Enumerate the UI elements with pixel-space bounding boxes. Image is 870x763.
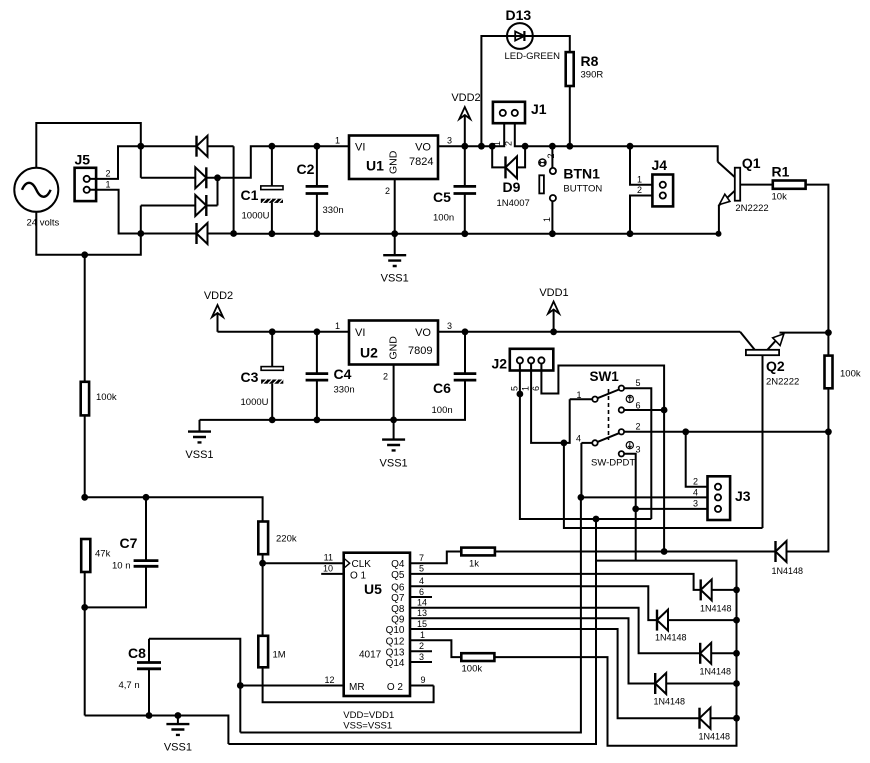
node C3 top [269,328,276,335]
label J2 pin5 [510,386,520,391]
svg-text:1: 1 [105,180,110,190]
label C6 [433,380,451,396]
node diode B bus [733,587,740,594]
label pin13 [417,608,427,618]
switch SW1 throw2 [619,429,829,434]
wire VSS column [228,519,596,744]
svg-text:1000U: 1000U [242,211,270,222]
svg-text:VDD2: VDD2 [451,92,480,104]
svg-text:14: 14 [417,598,427,608]
wire ac bottom [36,212,141,255]
label U5 [364,581,382,597]
node D9 right [522,143,529,150]
label U5 Q13 [386,647,405,658]
label C2 value [323,205,344,216]
label 1M [273,650,286,661]
diode D9 [492,146,525,178]
wire J4 pin2 [630,196,652,234]
wire J3 pin4 [581,496,708,498]
node C4 bottom [314,417,321,424]
node J4 top [627,143,634,150]
switch SW1 pole4 [581,433,619,497]
capacitor C1 [261,146,283,234]
wire J5 pin2 [90,146,141,179]
wire Q14 stub [410,661,432,663]
label J5 [75,152,91,168]
capacitor C3 [261,332,283,420]
label J2 pin1 [521,386,531,391]
svg-text:10 n: 10 n [112,561,131,572]
label 1N4148 D [700,667,732,677]
node C7 bottom [81,604,88,611]
svg-text:2: 2 [385,186,390,196]
node J3 pin2 top [682,428,689,435]
wire Q5 [410,574,701,590]
node C8 bottom [146,712,153,719]
svg-text:GND: GND [388,150,400,174]
svg-text:O 2: O 2 [387,682,404,693]
wire D13 right to R8 [533,36,570,52]
svg-text:VO: VO [415,142,431,154]
svg-text:6: 6 [531,386,541,391]
wire J5 pin1 [90,190,141,234]
node J2 pin5 branch [593,516,600,523]
svg-text:Q6: Q6 [391,582,405,593]
svg-text:LED-GREEN: LED-GREEN [505,51,561,62]
svg-text:2: 2 [637,185,642,195]
label U2 [360,345,378,361]
node ac-bottom tap [81,251,88,258]
label VDD1 [539,287,568,299]
node D13 left [478,143,485,150]
node J3 pin3 junction [632,506,639,513]
svg-text:4,7 n: 4,7 n [119,680,140,691]
svg-text:6: 6 [419,587,424,597]
wire U2 bottom rail [200,380,466,420]
node J3 pin4 junction [578,494,585,501]
svg-text:1N4148: 1N4148 [654,697,686,707]
label 1N4148 F [699,732,731,742]
node SW1 throw6 junction [661,407,668,414]
node bridge bottom-left [137,230,144,237]
label U5 O2 [387,682,404,693]
label R1 value [772,192,788,203]
label D9 value [497,198,530,209]
capacitor C2 [306,146,329,234]
label U5 Q8 [391,604,405,615]
node C5 top [461,143,468,150]
label pin6 [419,587,424,597]
resistor R2 100k left [81,255,89,497]
label U1 VI [355,142,365,154]
wire ac top [36,123,141,168]
resistor R6 1k [461,548,495,556]
wire bridge left lower column [140,206,142,234]
wire pole1 branch column [564,443,763,528]
label U5 MR [349,682,365,693]
label U5 4017 [359,650,382,661]
svg-text:O 1: O 1 [350,571,367,582]
label J5 pin1 [105,180,110,190]
svg-text:100n: 100n [432,405,453,416]
wire C8 top [149,639,240,686]
capacitor C8 [137,639,161,716]
label D13 LED-GREEN [505,51,561,62]
label C8 [128,645,146,661]
svg-text:Q4: Q4 [391,559,405,570]
svg-text:Q9: Q9 [391,614,405,625]
svg-text:10: 10 [323,564,333,574]
label C7 value [112,561,131,572]
svg-text:VDD2: VDD2 [204,290,233,302]
wire J2 pin1 [531,364,570,443]
svg-text:1N4148: 1N4148 [699,732,731,742]
node C2 bottom [314,230,321,237]
resistor R3 47k [81,539,90,716]
ac source V1 24 volts [14,168,58,212]
svg-text:4: 4 [693,487,698,497]
svg-text:2: 2 [419,641,424,651]
label 100k left [96,392,117,403]
label SW1 pin4 [576,434,581,444]
label D13 [506,7,532,23]
wire D13 left [481,36,507,146]
svg-text:J5: J5 [75,152,91,168]
wire bridge left column [140,146,142,178]
label SW-DPDT [591,458,635,469]
wire bridge right column [233,146,235,233]
svg-text:Q7: Q7 [391,593,405,604]
label SW1 pin5 [636,378,641,388]
label J2 pin6 [531,386,541,391]
label BTN1 [563,166,600,182]
note VDD=VDD1 [343,710,394,721]
svg-text:2N2222: 2N2222 [766,377,799,388]
wire 1k rail [495,551,776,553]
label U1 GND [388,150,400,174]
svg-text:24 volts: 24 volts [27,218,60,229]
svg-text:7824: 7824 [409,156,433,168]
svg-text:VSS1: VSS1 [381,273,409,285]
svg-text:2: 2 [546,153,556,158]
wire MR column [240,497,581,732]
capacitor C5 [454,146,477,234]
svg-text:Q1: Q1 [742,155,761,171]
svg-text:Q14: Q14 [386,658,405,669]
label U1 VO [415,142,431,154]
node BTN1 top [549,143,556,150]
node D2-D3 junction [214,174,221,181]
symbol down-arrow [626,442,633,449]
node throw2 column junction [825,428,832,435]
svg-text:15: 15 [417,619,427,629]
wire U2 vo rail [438,331,740,333]
label C5 [433,189,451,205]
wire CLK row [263,562,344,564]
label 100k right [840,369,861,380]
label U5 O1 [350,571,367,582]
svg-text:1: 1 [521,386,531,391]
node R8 bottom [566,143,573,150]
wire vin rail [272,145,349,147]
label pin10 [323,564,333,574]
label pin3 [419,652,424,662]
node BTN1 bottom [549,230,556,237]
label J4 [652,157,668,173]
label R8 value [581,70,604,81]
wire J3 pin2 [686,432,708,487]
svg-text:5: 5 [419,564,424,574]
node C1 top [269,143,276,150]
svg-text:1k: 1k [469,559,479,570]
wire D3 cathode up [217,178,219,206]
svg-text:D9: D9 [503,179,521,195]
svg-text:1N4148: 1N4148 [700,604,732,614]
svg-text:VI: VI [355,327,365,339]
svg-text:220k: 220k [276,534,297,545]
label BTN1 BUTTON [563,184,602,195]
wire U1 vo [438,145,492,147]
svg-text:11: 11 [324,553,333,563]
wire Q6 [410,586,657,620]
label J2 [492,356,508,372]
svg-text:C6: C6 [433,380,451,396]
diode D15 1N4148 B [701,579,737,600]
label 1N4148 C [655,633,687,643]
svg-text:D13: D13 [506,7,532,23]
transistor Q2 2N2222 [740,332,828,528]
label J3 pin4 [693,487,698,497]
svg-text:C1: C1 [241,187,259,203]
label C2 [297,161,315,177]
svg-text:R8: R8 [581,53,599,69]
label Q1 [742,155,761,171]
node diode C bus [733,617,740,624]
node C2 top [314,143,321,150]
wire Q10 [410,629,700,718]
svg-text:1000U: 1000U [241,397,269,408]
label Q2 2N2222 [766,377,799,388]
svg-text:390R: 390R [581,70,604,81]
label C7 [120,535,138,551]
svg-text:1: 1 [335,321,340,331]
label pin12 [324,675,334,685]
wire bottom-left VSS rail [85,716,229,745]
diode D1 [141,136,234,157]
label pin7 [419,553,424,563]
capacitor C6 [454,332,477,380]
wire bus top feed [494,561,736,746]
wire J3 pin3 column [635,509,637,561]
svg-text:BUTTON: BUTTON [563,184,602,195]
svg-text:VDD1: VDD1 [539,287,568,299]
label C4 value [334,385,355,396]
diode D14 1N4148 A [776,541,788,562]
wire 100k right down [827,388,829,432]
svg-text:5: 5 [636,378,641,388]
label U1 pin1 [335,136,340,146]
svg-text:3: 3 [693,499,698,509]
node gnd bottom [175,712,182,719]
svg-text:3: 3 [447,136,452,146]
svg-text:1N4148: 1N4148 [655,633,687,643]
wire Q4 [410,552,461,564]
label VDD2 top [451,92,480,104]
svg-text:C3: C3 [241,369,259,385]
node diode F bus [733,715,740,722]
ic U5 4017 [344,553,410,696]
label C6 value [432,405,453,416]
label C8 value [119,680,140,691]
node U2 gnd bottom [390,417,397,424]
svg-text:1N4148: 1N4148 [700,667,732,677]
svg-text:3: 3 [636,445,641,455]
rail to J1 pin1 [492,123,504,146]
label U5 Q9 [391,614,405,625]
node bridge top-left [137,143,144,150]
wire MR row [240,685,343,687]
node diode E bus [733,680,740,687]
svg-text:7809: 7809 [408,345,432,357]
label J3 pin3 [693,499,698,509]
wire right column to diode rail [787,432,828,552]
svg-text:J2: J2 [492,356,508,372]
label U2 VI [355,327,365,339]
node J2 pin5 dot [517,391,524,398]
label 47k [95,549,111,560]
label pin1 [420,630,425,640]
label C1 value [242,211,270,222]
label J3 pin2 [693,477,698,487]
wire rail J4 to Q1 [630,146,718,162]
resistor R4 220k [258,522,268,564]
svg-text:1: 1 [335,136,340,146]
label VSS1 under U1 [381,273,409,285]
resistor R1 [773,181,806,189]
svg-text:VSS1: VSS1 [380,458,408,470]
node Q2 emitter junction [825,329,832,336]
wire U1 gnd [394,179,396,234]
switch SW1 throw3 [619,451,636,509]
svg-text:BTN1: BTN1 [563,166,600,182]
node J2 pin1 branch [561,440,568,447]
diode D2 [141,146,272,188]
label D9 [503,179,521,195]
wire J3 pin3 [636,508,708,510]
node J2 pin6 bottom [661,548,668,555]
wire MR junction down [239,686,241,733]
svg-text:J1: J1 [531,101,547,117]
svg-text:2: 2 [383,372,388,382]
wire J2 pin5 [520,364,651,520]
label U5 Q6 [391,582,405,593]
svg-text:1: 1 [637,175,642,185]
svg-text:4017: 4017 [359,650,382,661]
wire Q7 stub [410,596,432,598]
svg-text:VDD=VDD1: VDD=VDD1 [343,710,394,721]
label pin14 [417,598,427,608]
connector J1 [493,102,525,123]
svg-text:U5: U5 [364,581,382,597]
label VSS1 left of U2 [185,449,213,461]
svg-text:MR: MR [349,682,365,693]
svg-text:CLK: CLK [352,559,372,570]
regulator U2 7809 [349,321,438,365]
svg-text:330n: 330n [323,205,344,216]
node MR junction [237,682,244,689]
svg-text:VO: VO [415,327,431,339]
label pin9 [421,675,426,685]
connector J4 [652,175,673,207]
svg-text:SW1: SW1 [590,369,620,384]
label C5 value [433,213,454,224]
label U2 pin1 [335,321,340,331]
svg-text:C5: C5 [433,189,451,205]
svg-text:VSS=VSS1: VSS=VSS1 [343,721,392,732]
label U1 7824 [409,156,433,168]
svg-text:Q2: Q2 [766,358,785,374]
label J1 pin1 [492,141,502,146]
label pin15 [417,619,427,629]
wire 1M bottom to O2 [263,667,434,702]
node C5 bottom [461,230,468,237]
label SW1 [590,369,620,384]
note VSS=VSS1 [343,721,392,732]
node 47k top [81,494,88,501]
label J3 [735,488,751,504]
svg-text:Q8: Q8 [391,604,405,615]
label pin11 [324,553,333,563]
wire Q13 stub [410,650,432,652]
label 24 volts [27,218,60,229]
svg-text:4: 4 [576,434,581,444]
label pin4 [419,576,424,586]
svg-text:1N4007: 1N4007 [497,198,530,209]
label U1 pin3 [447,136,452,146]
svg-text:VSS1: VSS1 [185,449,213,461]
svg-text:10k: 10k [772,192,788,203]
label Q1 2N2222 [735,203,768,214]
svg-text:Q5: Q5 [391,570,405,581]
label J4 pin2 [637,185,642,195]
svg-text:7: 7 [419,553,424,563]
capacitor C7 [85,497,159,607]
wire Q12 [410,640,461,657]
svg-text:Q12: Q12 [386,636,405,647]
label 1k [469,559,479,570]
label pin5 [419,564,424,574]
label J5 pin2 [105,168,110,178]
power VDD2 top [459,107,470,146]
label U2 pin3 [447,321,452,331]
svg-text:100k: 100k [840,369,861,380]
wire bottom rail top-section [234,233,719,235]
node VDD1 rail [550,328,557,335]
svg-text:1: 1 [576,390,581,400]
resistor R9 100k right [825,333,833,389]
label 1N4148 A [772,566,804,576]
svg-text:Q10: Q10 [386,625,405,636]
label U5 Q12 [386,636,405,647]
button BTN1 [539,146,556,234]
svg-text:R1: R1 [772,164,790,180]
label C3 value [241,397,269,408]
svg-text:VSS1: VSS1 [164,742,192,754]
wire rail BTN1 to J4 [552,145,630,147]
node Q1 emitter [716,231,722,237]
svg-text:330n: 330n [334,385,355,396]
diode D19 1N4148 F [700,708,737,729]
